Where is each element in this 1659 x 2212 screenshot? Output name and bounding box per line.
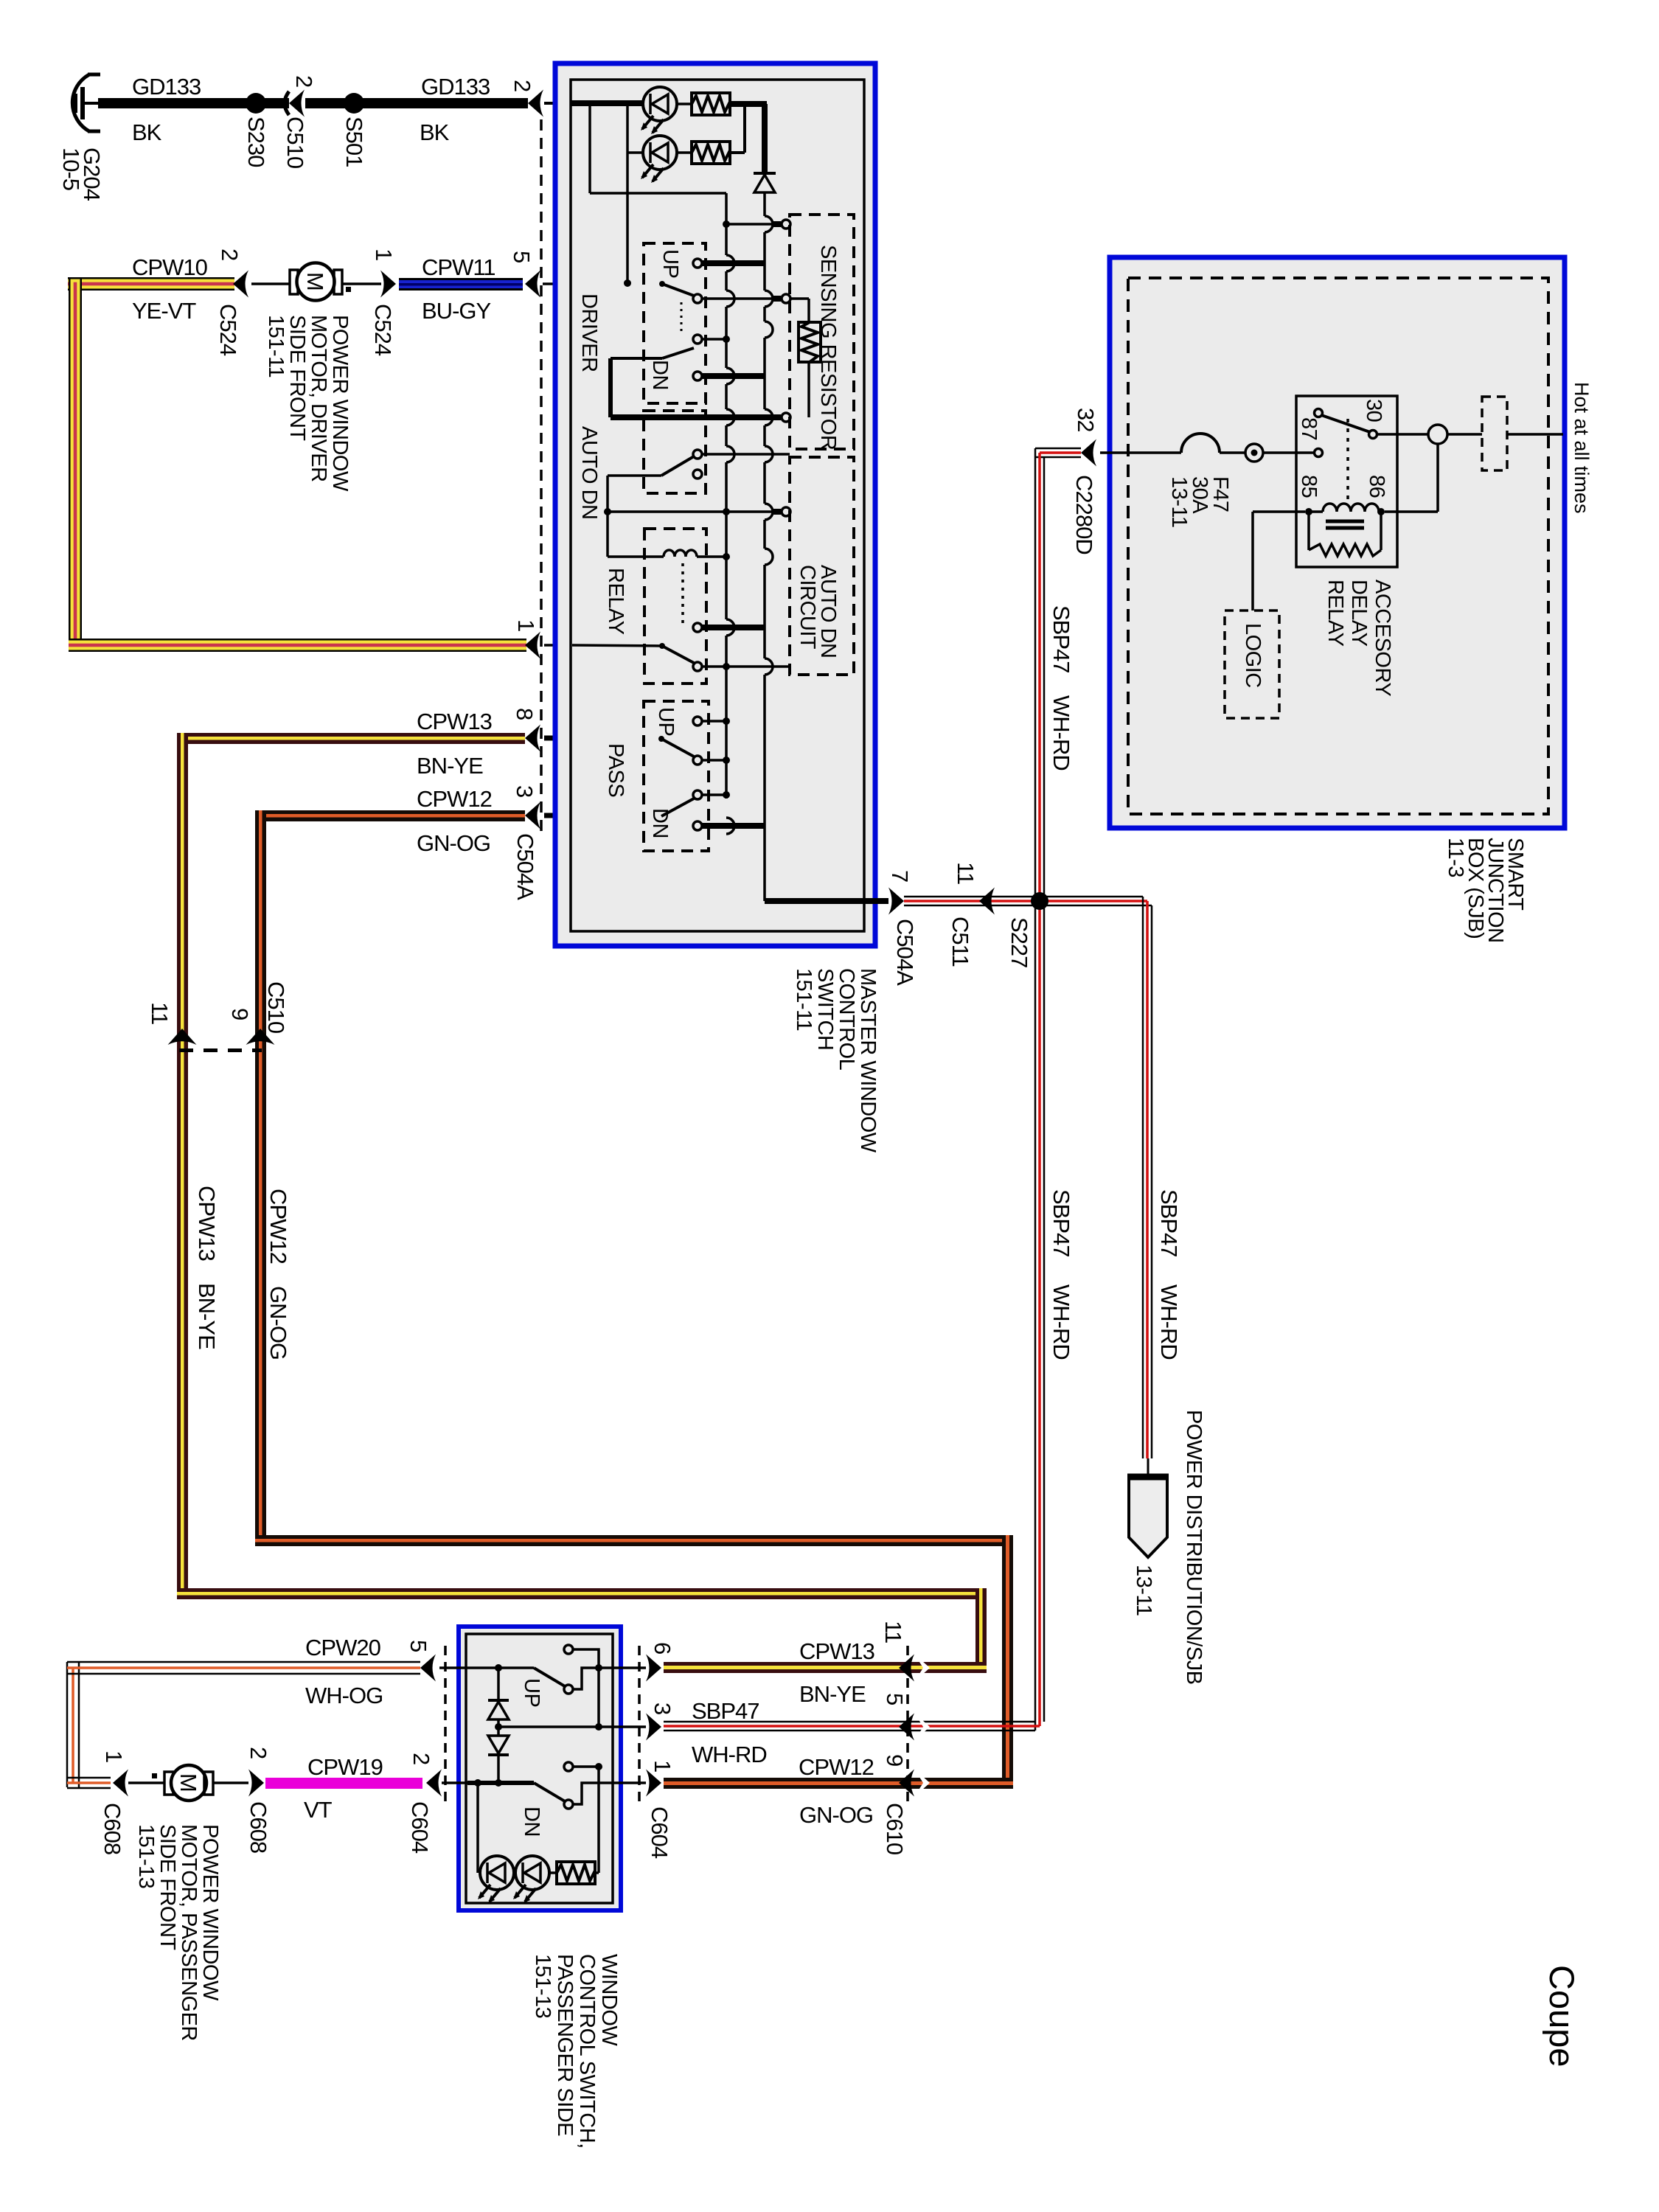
label 9 bbox=[227, 1008, 253, 1020]
pass DN blade from pin3 bbox=[661, 790, 730, 816]
svg-text:CPW12: CPW12 bbox=[417, 786, 492, 812]
wire pin32 to fuse bbox=[1100, 451, 1181, 454]
wire 86 to feed vertical bbox=[1385, 444, 1438, 512]
svg-text:WH-OG: WH-OG bbox=[305, 1683, 383, 1708]
wire fuse to bus ring bbox=[1220, 451, 1245, 454]
svg-text:WH-RD: WH-RD bbox=[692, 1742, 767, 1767]
wire BN-YE pin6 to corner bbox=[664, 1662, 987, 1673]
label 6 passenger bbox=[650, 1642, 675, 1654]
relay blade from pin1 bbox=[572, 643, 790, 671]
auto dn blade bbox=[661, 456, 694, 476]
wire 85 to logic bbox=[1253, 512, 1305, 611]
svg-text:AUTO DNCIRCUIT: AUTO DNCIRCUIT bbox=[796, 565, 840, 658]
wire stub into master box bbox=[544, 102, 572, 105]
label 5 C610 bbox=[882, 1693, 908, 1705]
label WH-RD branch bbox=[1156, 1284, 1182, 1360]
resistor R1 illumination bbox=[677, 93, 730, 115]
svg-text:C504A: C504A bbox=[892, 919, 918, 986]
passenger LED 1 bbox=[478, 1856, 514, 1903]
wire SBP47 WH-RD horizontal at pin32 bbox=[1035, 448, 1081, 457]
label 11 bbox=[147, 1002, 173, 1024]
wire WH-OG vertical bbox=[67, 1662, 79, 1787]
wire CPW13 lower horizontal bbox=[177, 1588, 987, 1599]
svg-text:86: 86 bbox=[1365, 475, 1388, 498]
master switch inner rect bbox=[571, 80, 864, 931]
bus line vertical x985 bbox=[725, 193, 728, 255]
wire CPW12 lower horizontal bbox=[255, 1535, 1013, 1546]
passenger motor right brush bbox=[204, 1772, 213, 1795]
svg-text:DRIVER: DRIVER bbox=[577, 293, 601, 372]
bus vertical x1037 with hops bbox=[765, 192, 773, 901]
driver UP switch blade bbox=[659, 281, 809, 303]
wire pin3 sbp47 stub bbox=[599, 1725, 646, 1728]
label AUTO DN CIRCUIT bbox=[796, 565, 840, 658]
svg-text:GN-OG: GN-OG bbox=[265, 1286, 291, 1360]
svg-text:13-11: 13-11 bbox=[1132, 1565, 1155, 1616]
label UP pass bbox=[654, 707, 678, 736]
svg-text:9: 9 bbox=[882, 1754, 908, 1766]
pass UP blade from pin8 bbox=[658, 736, 730, 765]
SECTION: passenger switch and motor bbox=[67, 1621, 1013, 2149]
passenger illumination resistor bbox=[549, 1862, 595, 1884]
label 2 bbox=[217, 248, 243, 260]
passenger LED chain left wire bbox=[476, 1783, 479, 1873]
label C608 left bbox=[100, 1803, 125, 1854]
thick bus AUTO DN row bbox=[611, 414, 781, 420]
label 86 bbox=[1365, 475, 1388, 498]
SECTION: top ground row bbox=[58, 74, 572, 201]
wire thin motor to pin1 arrow bbox=[342, 282, 381, 285]
svg-text:YE-VT: YE-VT bbox=[132, 298, 196, 324]
svg-text:CPW10: CPW10 bbox=[132, 254, 208, 280]
label C604 left bbox=[407, 1801, 433, 1854]
connector arrow passenger pin 1 bbox=[646, 1770, 661, 1797]
SECTION: sbp47 wiring bbox=[664, 448, 1206, 1731]
wire ring to fusible link bbox=[1447, 433, 1482, 436]
label Hot at all times bbox=[1571, 382, 1593, 514]
svg-text:87: 87 bbox=[1297, 417, 1321, 440]
svg-text:5: 5 bbox=[509, 251, 535, 262]
relay actuation dotted line bbox=[681, 563, 684, 625]
svg-text:C604: C604 bbox=[647, 1806, 672, 1859]
connector arrow passenger pin 2 bbox=[426, 1770, 442, 1797]
label block WINDOW CONTROL SWITCH PASSENGER SIDE 151-13 bbox=[531, 1954, 621, 2149]
svg-text:1: 1 bbox=[371, 248, 397, 260]
svg-text:C524: C524 bbox=[215, 304, 241, 356]
svg-text:DN: DN bbox=[520, 1806, 543, 1837]
label C510 bbox=[263, 981, 289, 1034]
connector arrow passenger pin 6 bbox=[646, 1655, 661, 1682]
wire CPW10 YE-VT lower horizontal to pin 1 bbox=[69, 639, 526, 652]
label C510 bbox=[282, 116, 308, 169]
wire CPW12 GN-OG horizontal to pin 3 bbox=[255, 810, 525, 821]
master switch outer blue box bbox=[555, 63, 875, 946]
power distribution banner bbox=[1127, 1476, 1169, 1557]
wire WH-OG lower horizontal to motor pin1 bbox=[67, 1778, 111, 1788]
SECTION: master window control switch bbox=[541, 63, 918, 1153]
label S501 bbox=[341, 116, 367, 167]
svg-text:WH-RD: WH-RD bbox=[1156, 1284, 1182, 1360]
fuse F47 arc bbox=[1181, 434, 1220, 453]
passenger switch outer blue box bbox=[459, 1627, 621, 1910]
splice S230 bbox=[246, 93, 266, 114]
wire stub into master box pin3 thick bbox=[544, 813, 572, 818]
label block MASTER WINDOW CONTROL SWITCH 151-11 bbox=[792, 968, 880, 1153]
label 2 at C510 bbox=[291, 75, 317, 87]
svg-text:BU-GY: BU-GY bbox=[422, 298, 491, 324]
svg-text:BN-YE: BN-YE bbox=[417, 753, 483, 779]
svg-text:11: 11 bbox=[147, 1002, 173, 1024]
label S230 bbox=[243, 116, 269, 167]
wire driver DN common down bbox=[611, 358, 662, 417]
wire thin to passenger motor bbox=[128, 1781, 164, 1784]
relay internal resistor bbox=[1309, 512, 1381, 556]
dashed connector line C510 bbox=[179, 1048, 262, 1052]
diode D1 master bbox=[754, 173, 776, 192]
wire CPW13 vertical bbox=[177, 733, 188, 1599]
wire stub into master box pin5 bbox=[543, 282, 572, 285]
svg-text:30: 30 bbox=[1362, 399, 1385, 422]
relay actuation dashed bbox=[1346, 419, 1349, 501]
svg-text:2: 2 bbox=[291, 75, 317, 87]
svg-text:CPW20: CPW20 bbox=[305, 1635, 381, 1660]
wire CPW13 right vertical down bbox=[975, 1588, 987, 1672]
SECTION: driver motor row bbox=[68, 248, 572, 659]
dashed connector line C504A bbox=[540, 119, 543, 838]
label C2280D bbox=[1071, 475, 1097, 554]
svg-text:S230: S230 bbox=[243, 116, 269, 167]
label 1 bbox=[371, 248, 397, 260]
wire WH-RD branch vertical to banner bbox=[1143, 897, 1152, 1478]
wire thin motor to arrow bbox=[213, 1781, 248, 1784]
label 87 bbox=[1297, 417, 1321, 440]
svg-text:2: 2 bbox=[408, 1753, 434, 1764]
connector arrow C511 pin 11 bbox=[979, 888, 995, 915]
wire CPW11 BU-GY bbox=[399, 278, 523, 291]
svg-text:C2280D: C2280D bbox=[1071, 475, 1097, 554]
label 2 passenger bbox=[408, 1753, 434, 1764]
fusible link dashed component bbox=[1482, 397, 1507, 470]
resistor R2 illumination bbox=[677, 142, 730, 164]
svg-text:Coupe: Coupe bbox=[1543, 1965, 1582, 2067]
connector arrow pin 1 master switch (yellow wire) bbox=[525, 632, 540, 659]
label C504A bbox=[512, 833, 538, 900]
svg-text:CPW13: CPW13 bbox=[799, 1638, 874, 1664]
wire auto dn common bbox=[604, 476, 790, 557]
relay upper contact thick stub bbox=[693, 623, 765, 632]
dashed connector line C604 left bbox=[444, 1646, 447, 1802]
label block ACCESORY DELAY RELAY bbox=[1324, 580, 1394, 696]
label PASS bbox=[604, 743, 627, 797]
bus ring symbol bbox=[1245, 444, 1263, 462]
label DN pass bbox=[648, 808, 672, 838]
pass DN lower contact thick stub bbox=[693, 821, 765, 830]
wire stub pin 2 into box thick bbox=[442, 1781, 467, 1784]
svg-text:2: 2 bbox=[509, 80, 535, 91]
wire GD133 BK thick segment right bbox=[305, 98, 528, 108]
wire CPW12 right vertical down bbox=[1002, 1535, 1013, 1789]
svg-text:AUTO DN: AUTO DN bbox=[577, 426, 601, 519]
svg-text:6: 6 bbox=[650, 1642, 675, 1654]
svg-text:PASS: PASS bbox=[604, 743, 627, 797]
inline connector C510 chevron on CPW13 bbox=[168, 1029, 197, 1045]
label C608 right bbox=[246, 1801, 271, 1853]
accessory delay relay box bbox=[1296, 396, 1397, 567]
wire CPW13 BN-YE horizontal to pin 8 bbox=[177, 733, 525, 744]
label WH-RD lower bbox=[1048, 1284, 1074, 1360]
relay coil core bars bbox=[1326, 521, 1364, 528]
label 11 C511 bbox=[953, 862, 978, 884]
wire CPW20 WH-OG horizontal bbox=[67, 1662, 420, 1674]
svg-text:CPW19: CPW19 bbox=[307, 1754, 383, 1780]
sensing resistor dashed box bbox=[790, 215, 854, 449]
svg-text:C524: C524 bbox=[370, 304, 396, 356]
svg-text:2: 2 bbox=[217, 248, 243, 260]
passenger DN upper contact bbox=[564, 1762, 602, 1771]
LOGIC dashed box bbox=[1225, 611, 1279, 718]
connector arrow pin 2 master switch bbox=[528, 90, 543, 117]
svg-text:GN-OG: GN-OG bbox=[417, 830, 490, 856]
driver UP DN dashed box bbox=[644, 243, 706, 403]
label 7 pin bbox=[887, 870, 913, 882]
svg-text:GD133: GD133 bbox=[421, 74, 490, 100]
label 5 pin bbox=[509, 251, 535, 262]
label S227 bbox=[1006, 917, 1032, 967]
connector arrow C524 pin 2 bbox=[233, 271, 248, 298]
svg-text:GD133: GD133 bbox=[132, 74, 201, 100]
diode mid connection to sbp47 row bbox=[498, 1723, 602, 1731]
SJB outer blue box bbox=[1110, 257, 1565, 828]
svg-text:85: 85 bbox=[1297, 475, 1321, 498]
diode chain vertical bbox=[488, 1668, 509, 1783]
svg-text:LOGIC: LOGIC bbox=[1241, 623, 1265, 688]
wire thick R1 to bus bbox=[730, 101, 767, 107]
label BN-YE vertical bbox=[194, 1283, 220, 1349]
svg-text:1: 1 bbox=[513, 619, 539, 631]
label SBP47 upper bbox=[1048, 605, 1074, 673]
connector arrow C608 pin 1 bbox=[113, 1770, 128, 1797]
passenger DN switch bbox=[534, 1783, 613, 1809]
label 3 passenger bbox=[650, 1703, 675, 1714]
relay contact 30 and blade bbox=[1315, 409, 1377, 439]
SECTION: smart junction box bbox=[1071, 257, 1593, 943]
label block SMART JUNCTION BOX (SJB) 11-3 bbox=[1444, 838, 1527, 943]
splice S501 bbox=[344, 93, 364, 114]
svg-text:C510: C510 bbox=[282, 116, 308, 169]
open ring on feed bbox=[1428, 425, 1447, 444]
label GN-OG vertical bbox=[265, 1286, 291, 1360]
label C524 left bbox=[215, 304, 241, 356]
label 85 bbox=[1297, 475, 1321, 498]
label 30 bbox=[1362, 399, 1385, 422]
label RELAY bbox=[604, 568, 627, 635]
svg-text:1: 1 bbox=[101, 1750, 127, 1762]
svg-text:9: 9 bbox=[227, 1008, 253, 1020]
svg-text:SBP47: SBP47 bbox=[692, 1698, 759, 1724]
label 1 passenger right bbox=[650, 1760, 675, 1772]
dashed connector line C604 right bbox=[638, 1646, 641, 1805]
svg-text:C604: C604 bbox=[407, 1801, 433, 1854]
label C524 right bbox=[370, 304, 396, 356]
label UP driver bbox=[658, 249, 682, 278]
wire GD133 BK thick segment left bbox=[98, 98, 289, 108]
wire 30 to ring circle bbox=[1377, 433, 1427, 436]
sensing resistor component bbox=[799, 299, 821, 417]
label 2 pin bbox=[509, 80, 535, 91]
connector arrow C610 pin 11 on BN-YE bbox=[899, 1654, 930, 1682]
wire WH-RD horizontal through S227 bbox=[904, 897, 1152, 905]
label AUTO DN bbox=[577, 426, 601, 519]
connector arrow pin 32 C2280D bbox=[1081, 439, 1096, 467]
connector arrow C610 pin 9 on GN-OG bbox=[899, 1769, 930, 1797]
svg-text:5: 5 bbox=[406, 1640, 431, 1652]
svg-text:3: 3 bbox=[512, 785, 538, 797]
connector arrow C524 pin 1 bbox=[380, 271, 396, 298]
svg-text:BK: BK bbox=[132, 119, 162, 145]
svg-text:S227: S227 bbox=[1006, 917, 1032, 967]
svg-text:3: 3 bbox=[650, 1703, 675, 1714]
svg-text:S501: S501 bbox=[341, 116, 367, 167]
dashed connector line C610 bbox=[906, 1646, 909, 1805]
svg-text:C608: C608 bbox=[246, 1801, 271, 1853]
svg-text:GN-OG: GN-OG bbox=[799, 1802, 873, 1828]
SJB inner dashed box bbox=[1128, 278, 1548, 814]
svg-text:VT: VT bbox=[304, 1797, 333, 1823]
svg-text:CPW13: CPW13 bbox=[417, 709, 492, 734]
label 9 C610 bbox=[882, 1754, 908, 1766]
svg-text:UP: UP bbox=[520, 1678, 543, 1707]
motor M driver window: right brush bbox=[334, 270, 342, 294]
passenger LED 2 bbox=[513, 1856, 549, 1903]
label 11 C610 bbox=[880, 1621, 906, 1643]
svg-text:11: 11 bbox=[880, 1621, 906, 1643]
svg-text:UP: UP bbox=[654, 707, 678, 736]
relay coil bbox=[1305, 504, 1385, 515]
label DN passenger bbox=[520, 1806, 543, 1837]
wire SBP47 WH-RD vertical main bbox=[1035, 448, 1044, 1731]
svg-text:M: M bbox=[175, 1773, 201, 1792]
wire CPW10 corner vertical to lower row bbox=[69, 277, 82, 652]
wire stub into master box pin8 thick bbox=[544, 736, 572, 741]
auto dn circuit dashed box bbox=[790, 457, 854, 675]
pass UP contact bbox=[693, 717, 730, 726]
label DN driver bbox=[648, 360, 672, 390]
svg-text:C511: C511 bbox=[947, 917, 973, 967]
passenger UP switch bbox=[534, 1668, 613, 1694]
connector arrow C608 pin 2 bbox=[248, 1770, 264, 1797]
label C511 bbox=[947, 917, 973, 967]
label C604 right bbox=[647, 1806, 672, 1859]
motor label block POWER WINDOW MOTOR DRIVER SIDE FRONT 151-11 bbox=[264, 315, 352, 492]
connector arrow pin 5 master switch bbox=[525, 271, 540, 298]
wire CPW12 vertical bbox=[255, 810, 266, 1546]
label C504A bottom bbox=[892, 919, 918, 986]
terminal circle auto dn row bbox=[782, 413, 790, 422]
svg-text:C608: C608 bbox=[100, 1803, 125, 1854]
connector arrow passenger pin 5 bbox=[420, 1655, 436, 1682]
label UP passenger bbox=[520, 1678, 543, 1707]
svg-text:C510: C510 bbox=[263, 981, 289, 1034]
svg-text:BN-YE: BN-YE bbox=[194, 1283, 220, 1349]
svg-text:POWER DISTRIBUTION/SJB: POWER DISTRIBUTION/SJB bbox=[1182, 1410, 1206, 1684]
svg-text:5: 5 bbox=[882, 1693, 908, 1705]
relay coil bbox=[608, 550, 730, 560]
svg-text:SBP47: SBP47 bbox=[1156, 1189, 1182, 1257]
relay dashed box bbox=[644, 529, 706, 684]
driver switch dotted divider bbox=[681, 302, 683, 333]
auto dn contacts bbox=[693, 450, 790, 479]
svg-text:C610: C610 bbox=[882, 1803, 908, 1855]
label CPW12 vertical bbox=[265, 1189, 291, 1264]
label POWER DISTRIBUTION/SJB bbox=[1182, 1410, 1206, 1684]
wire stub pin 5 into box bbox=[439, 1666, 467, 1669]
svg-text:SBP47: SBP47 bbox=[1048, 605, 1074, 673]
wire to hot at all times bbox=[1507, 433, 1563, 436]
passenger motor terminal dot bbox=[152, 1773, 157, 1778]
svg-text:CPW12: CPW12 bbox=[265, 1189, 291, 1264]
label 5 passenger bbox=[406, 1640, 431, 1652]
label SENSING RESISTOR bbox=[816, 245, 840, 450]
svg-text:BK: BK bbox=[420, 119, 450, 145]
svg-text:DN: DN bbox=[648, 808, 672, 838]
ground label G204 10-5 bbox=[58, 147, 105, 201]
label block POWER WINDOW MOTOR PASSENGER SIDE FRONT 151-13 bbox=[134, 1824, 222, 2041]
connector arrow pin 8 master switch bbox=[525, 725, 540, 752]
SECTION: cpw13 cpw12 wires bbox=[147, 708, 1013, 1789]
connector arrow pin 7 C504A bbox=[888, 888, 904, 915]
svg-text:C504A: C504A bbox=[512, 833, 538, 900]
wire CPW10 YE-VT horizontal bbox=[68, 277, 234, 291]
svg-text:CPW12: CPW12 bbox=[799, 1754, 874, 1780]
wire pin 1 stub bbox=[613, 1781, 646, 1784]
svg-text:7: 7 bbox=[887, 870, 913, 882]
connector arrow C610 pin 5 on WH-RD bbox=[899, 1713, 930, 1741]
motor M driver window: left brush bbox=[290, 270, 298, 294]
svg-text:DN: DN bbox=[648, 360, 672, 390]
svg-text:CPW11: CPW11 bbox=[422, 254, 495, 280]
svg-text:WH-RD: WH-RD bbox=[1048, 695, 1074, 771]
svg-text:WH-RD: WH-RD bbox=[1048, 1284, 1074, 1360]
label WH-RD upper bbox=[1048, 695, 1074, 771]
label Coupe bbox=[1543, 1965, 1582, 2067]
LED illumination 1 bbox=[641, 87, 677, 134]
wire WH-RD lower horizontal to passenger pin 3 bbox=[664, 1722, 1040, 1731]
connector arrow pin 3 master switch bbox=[525, 802, 540, 829]
svg-text:M: M bbox=[302, 272, 328, 291]
passenger motor left brush bbox=[164, 1772, 173, 1795]
passenger DN row wire thick bbox=[467, 1779, 534, 1787]
svg-text:1: 1 bbox=[650, 1760, 675, 1772]
svg-text:11: 11 bbox=[953, 862, 978, 884]
svg-text:Hot at all times: Hot at all times bbox=[1571, 382, 1593, 514]
label LOGIC bbox=[1241, 623, 1265, 688]
wire R2 up to row1 bbox=[730, 104, 745, 153]
svg-text:8: 8 bbox=[512, 708, 538, 720]
driver UP contact + thick stub bbox=[693, 259, 765, 268]
wire stub into master box pin1 bbox=[544, 644, 572, 647]
terminal circle row top bbox=[723, 220, 790, 229]
label 8 pin bbox=[512, 708, 538, 720]
wire CPW19 VT magenta bbox=[265, 1778, 422, 1789]
wire GN-OG pin1 to corner bbox=[664, 1778, 1013, 1789]
wire thick pin2 inside bbox=[571, 100, 643, 106]
label 1 pin bbox=[513, 619, 539, 631]
wire resistor up to bus bbox=[595, 1764, 599, 1873]
label C610 bbox=[882, 1803, 908, 1855]
inline connector C510 chevron on CPW12 bbox=[246, 1029, 275, 1045]
svg-text:32: 32 bbox=[1073, 408, 1099, 431]
svg-text:CPW13: CPW13 bbox=[194, 1186, 220, 1261]
